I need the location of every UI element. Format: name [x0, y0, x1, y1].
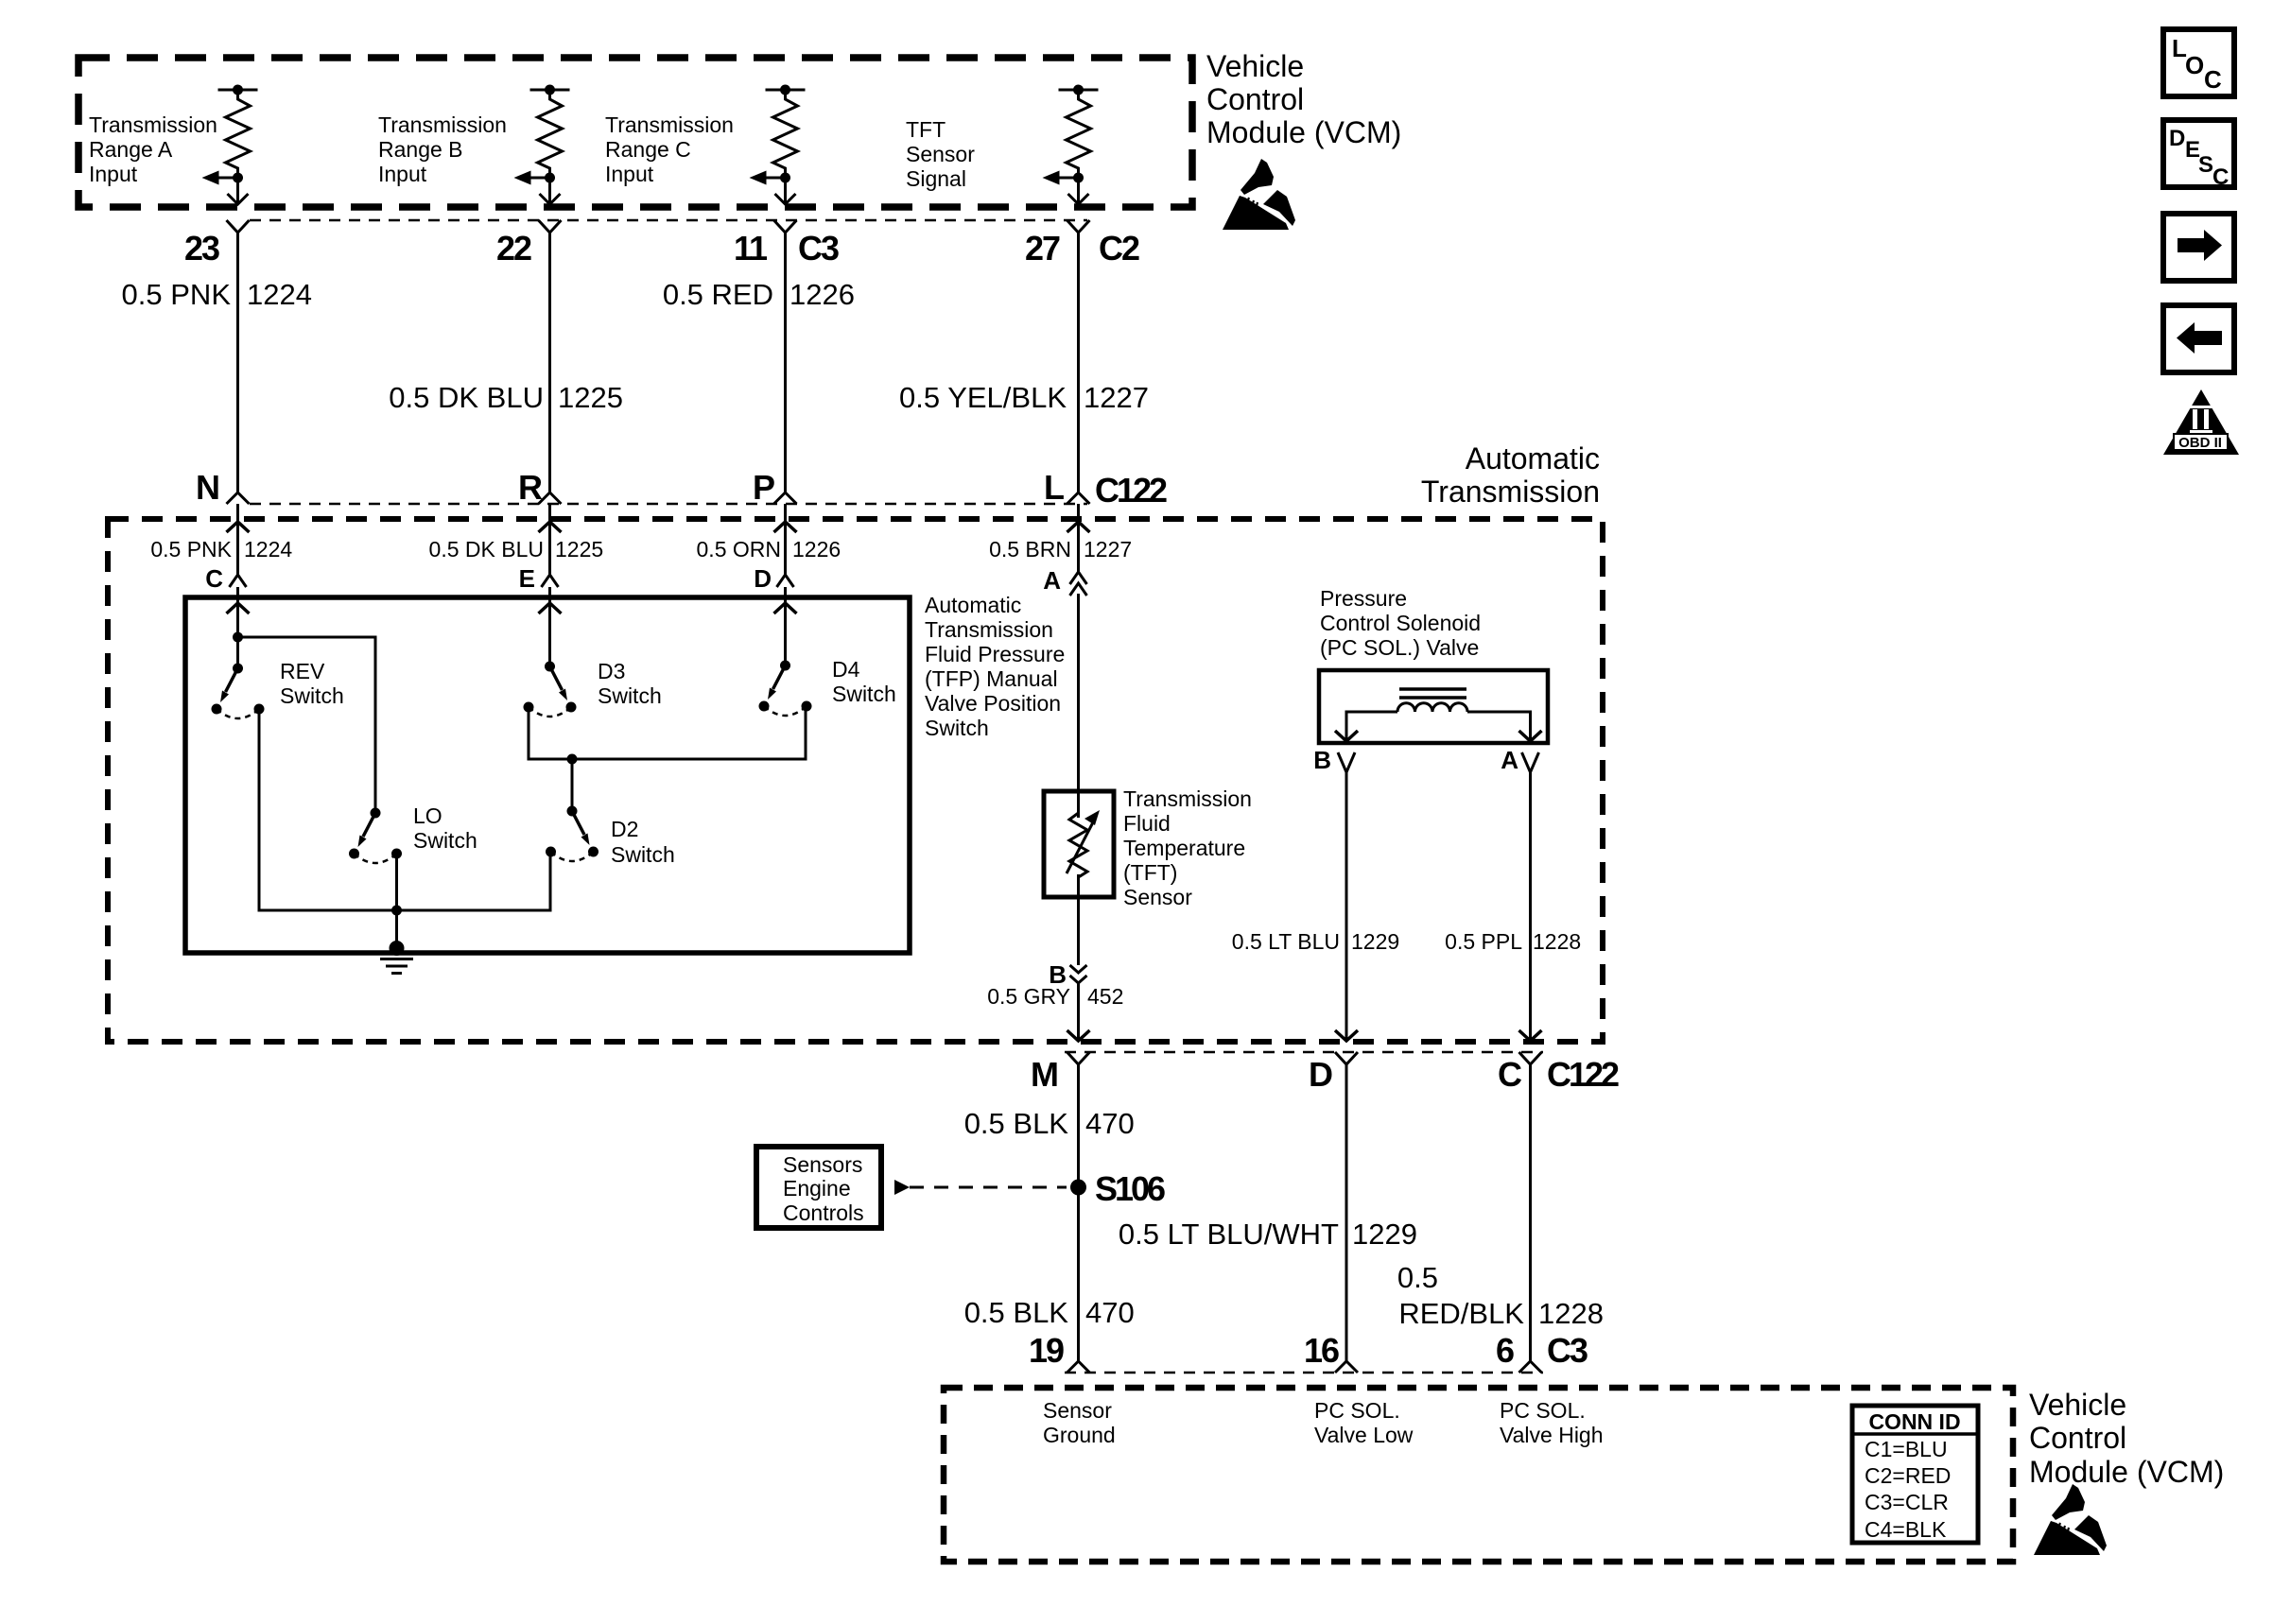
wire LO right contact to ground [395, 855, 398, 948]
svg-text:PC SOL.: PC SOL. [1314, 1398, 1400, 1423]
wire C inside TFP box [236, 587, 239, 668]
svg-text:C122: C122 [1547, 1055, 1619, 1094]
svg-text:Controls: Controls [783, 1201, 864, 1225]
svg-text:0.5 PPL: 0.5 PPL [1445, 929, 1522, 954]
svg-text:Range C: Range C [605, 137, 691, 162]
svg-text:Range A: Range A [89, 137, 173, 162]
ESD symbol bottom [2034, 1484, 2107, 1555]
wire 1228 ppl (solenoid A to C122) [1529, 772, 1532, 1039]
svg-text:B: B [1313, 746, 1331, 774]
svg-text:D4: D4 [832, 657, 860, 682]
svg-text:Switch: Switch [832, 682, 896, 706]
wire 470 blk upper [1077, 1064, 1080, 1362]
svg-text:Transmission: Transmission [378, 112, 507, 137]
svg-text:D: D [1309, 1055, 1332, 1094]
pin 27 chevron [1067, 220, 1090, 233]
svg-text:C3: C3 [1547, 1331, 1588, 1370]
svg-text:D: D [754, 564, 772, 593]
REV switch [212, 664, 265, 719]
svg-text:C3=CLR: C3=CLR [1865, 1490, 1949, 1514]
svg-text:6: 6 [1496, 1331, 1514, 1370]
svg-text:Input: Input [605, 162, 654, 186]
svg-text:1229: 1229 [1352, 1218, 1417, 1251]
svg-text:Control Solenoid: Control Solenoid [1320, 611, 1481, 635]
pin B double chevron (TFT) [1070, 965, 1087, 973]
svg-text:(PC SOL.) Valve: (PC SOL.) Valve [1320, 635, 1479, 660]
svg-text:C4=BLK: C4=BLK [1865, 1517, 1947, 1542]
svg-text:Control: Control [1206, 82, 1304, 116]
svg-text:O: O [2185, 51, 2204, 79]
svg-text:470: 470 [1085, 1107, 1135, 1140]
wire A entry arrow + wire [1077, 504, 1080, 572]
ground [380, 941, 413, 974]
svg-text:1224: 1224 [247, 278, 312, 311]
svg-text:Sensor: Sensor [1043, 1398, 1112, 1423]
wire 1227 yel/blk (VCM to C122) [1077, 233, 1080, 492]
svg-text:PC SOL.: PC SOL. [1500, 1398, 1586, 1423]
svg-text:Sensors: Sensors [783, 1152, 862, 1177]
TFT sensor thermistor zigzag [1069, 813, 1087, 877]
svg-text:Transmission: Transmission [605, 112, 734, 137]
svg-text:Vehicle: Vehicle [2029, 1388, 2126, 1422]
wire E inside TFP box [548, 587, 551, 666]
svg-text:Input: Input [89, 162, 138, 186]
D4 switch [759, 661, 812, 717]
ESD symbol top [1223, 159, 1295, 230]
svg-text:1224: 1224 [244, 537, 292, 561]
pin B chevron (solenoid) [1338, 752, 1355, 772]
svg-text:0.5 GRY: 0.5 GRY [987, 984, 1070, 1009]
LO switch [349, 808, 402, 864]
icon DESC box [2163, 120, 2234, 187]
svg-text:C2: C2 [1099, 229, 1139, 268]
icon forward arrow box [2163, 214, 2234, 281]
wire 1229 lt blu (solenoid B to C122) [1345, 772, 1348, 1039]
wire D entry arrow + wire [784, 504, 787, 575]
pin 22 chevron [539, 220, 562, 233]
svg-text:Switch: Switch [598, 683, 662, 708]
svg-text:0.5 ORN: 0.5 ORN [697, 537, 781, 561]
svg-text:D3: D3 [598, 659, 625, 683]
svg-text:C1=BLU: C1=BLU [1865, 1437, 1948, 1461]
svg-text:Pressure: Pressure [1320, 586, 1407, 611]
svg-text:1229: 1229 [1351, 929, 1399, 954]
svg-text:23: 23 [184, 229, 219, 268]
pin 6 chevron [1519, 1361, 1542, 1373]
svg-text:Switch: Switch [413, 828, 477, 853]
svg-text:S106: S106 [1095, 1169, 1165, 1208]
pin 16 chevron [1335, 1361, 1358, 1373]
svg-text:N: N [196, 468, 218, 507]
svg-text:Range B: Range B [378, 137, 463, 162]
pin R chevron [539, 492, 562, 504]
svg-text:Transmission: Transmission [1421, 475, 1600, 509]
svg-text:D2: D2 [611, 817, 638, 841]
svg-text:OBD II: OBD II [2178, 435, 2222, 451]
icon OBD II triangle [2163, 389, 2239, 455]
pin P chevron [774, 492, 797, 504]
svg-text:0.5 PNK: 0.5 PNK [122, 278, 232, 311]
svg-text:L: L [1044, 468, 1064, 507]
icon LOC box [2163, 29, 2234, 96]
wire D3 left contact down and bus to D4 [529, 706, 806, 759]
svg-text:1225: 1225 [555, 537, 603, 561]
wire 1225 dk blu (VCM to C122) [548, 233, 551, 492]
svg-text:1227: 1227 [1084, 381, 1149, 414]
svg-text:Automatic: Automatic [925, 593, 1021, 617]
Vehicle Control Module (VCM) top dashed box [78, 58, 1192, 207]
pin N chevron [227, 492, 250, 504]
resistor Transmission Range C Input [750, 85, 806, 205]
TFT sensor box [1044, 791, 1114, 897]
wire E entry arrow + wire [548, 504, 551, 575]
svg-text:0.5 PNK: 0.5 PNK [150, 537, 232, 561]
svg-text:1226: 1226 [792, 537, 841, 561]
Pressure Control Solenoid (PC SOL.) Valve box [1319, 670, 1548, 743]
Automatic Transmission dashed box [108, 519, 1603, 1042]
icon back arrow box [2163, 305, 2234, 372]
svg-text:Input: Input [378, 162, 427, 186]
svg-text:(TFT): (TFT) [1123, 860, 1177, 885]
svg-text:0.5 BRN: 0.5 BRN [989, 537, 1071, 561]
wire branch C to LO switch [238, 637, 376, 813]
wire D inside TFP box [784, 587, 787, 665]
svg-text:1227: 1227 [1084, 537, 1132, 561]
svg-text:Engine: Engine [783, 1176, 851, 1201]
wire 1224 pnk (VCM to C122) [236, 233, 239, 492]
solenoid coil [1397, 703, 1467, 712]
svg-text:C: C [1498, 1055, 1522, 1094]
wire TFT sensor to pin B [1077, 874, 1080, 965]
svg-text:Fluid Pressure: Fluid Pressure [925, 642, 1065, 666]
svg-text:REV: REV [280, 659, 325, 683]
svg-text:Fluid: Fluid [1123, 811, 1171, 836]
connector C122 line (top) [250, 503, 1087, 506]
pin A double chevron (TFP) [1070, 572, 1087, 584]
node: junction dot LO/REV [391, 906, 402, 916]
svg-text:C2=RED: C2=RED [1865, 1463, 1951, 1488]
wire 1229 lt blu/wht (C122 to VCM) [1345, 1064, 1348, 1362]
connector C3/C2 line (top VCM) [250, 219, 1087, 222]
wire C entry arrow + wire (C122 to TFP pin C) [236, 504, 239, 575]
pin D chevron [1335, 1052, 1358, 1064]
wire 1226 red (VCM to C122) [784, 233, 787, 492]
svg-text:1228: 1228 [1533, 929, 1581, 954]
svg-text:RED/BLK: RED/BLK [1398, 1297, 1524, 1330]
TFT sensor arrow [1067, 821, 1094, 873]
pin M chevron [1067, 1052, 1090, 1064]
svg-text:Valve High: Valve High [1500, 1423, 1604, 1447]
svg-text:TFT: TFT [906, 117, 946, 142]
svg-text:Valve Low: Valve Low [1314, 1423, 1414, 1447]
svg-text:22: 22 [496, 229, 531, 268]
arrow to S106 [894, 1180, 910, 1195]
TFP Manual Valve Position Switch box [185, 597, 910, 953]
svg-text:Sensor: Sensor [906, 142, 975, 166]
svg-text:0.5 YEL/BLK: 0.5 YEL/BLK [899, 381, 1067, 414]
node S106 splice [1070, 1180, 1086, 1196]
pin 23 chevron [227, 220, 250, 233]
pin C chevron [1519, 1052, 1542, 1064]
svg-text:Automatic: Automatic [1466, 441, 1600, 475]
pin 11 chevron [774, 220, 797, 233]
svg-text:0.5 DK BLU: 0.5 DK BLU [389, 381, 544, 414]
pin D chevron (TFP) [777, 575, 794, 587]
Sensors Engine Controls box [756, 1147, 881, 1228]
pin 19 chevron [1067, 1361, 1090, 1373]
CONN ID table [1852, 1406, 1978, 1543]
svg-text:Module (VCM): Module (VCM) [1206, 115, 1401, 149]
wire 1228 red/blk (C122 to VCM) [1529, 1064, 1532, 1362]
svg-text:S: S [2198, 152, 2213, 178]
svg-text:0.5 BLK: 0.5 BLK [964, 1107, 1069, 1140]
svg-text:0.5 BLK: 0.5 BLK [964, 1296, 1069, 1329]
svg-text:(TFP) Manual: (TFP) Manual [925, 666, 1058, 691]
svg-text:R: R [518, 468, 543, 507]
wire bus to D2 switch [571, 759, 574, 811]
solenoid internal wiring [1346, 712, 1397, 740]
dashed link to S106 [910, 1186, 1067, 1189]
connector C122 line (bottom) [1065, 1051, 1543, 1054]
svg-text:Vehicle: Vehicle [1206, 49, 1304, 83]
svg-text:CONN ID: CONN ID [1868, 1409, 1960, 1434]
svg-text:Module (VCM): Module (VCM) [2029, 1455, 2224, 1489]
svg-text:0.5 RED: 0.5 RED [663, 278, 773, 311]
svg-text:1226: 1226 [789, 278, 855, 311]
svg-text:C122: C122 [1095, 471, 1167, 510]
svg-text:Ground: Ground [1043, 1423, 1116, 1447]
svg-text:0.5 LT BLU/WHT: 0.5 LT BLU/WHT [1119, 1218, 1339, 1251]
svg-text:D: D [2169, 126, 2185, 151]
svg-text:Signal: Signal [906, 166, 966, 191]
svg-text:M: M [1031, 1055, 1057, 1094]
wire A (C122 to TFT sensor) [1077, 594, 1080, 818]
svg-text:Transmission: Transmission [1123, 786, 1252, 811]
svg-text:0.5 DK BLU: 0.5 DK BLU [429, 537, 544, 561]
D2 switch [546, 806, 599, 862]
connector C3 line (bottom) [1065, 1372, 1543, 1374]
resistor Transmission Range A Input [202, 85, 258, 205]
svg-text:11: 11 [734, 229, 768, 268]
svg-text:0.5 LT BLU: 0.5 LT BLU [1232, 929, 1340, 954]
pin E chevron (TFP) [542, 575, 559, 587]
svg-text:1225: 1225 [558, 381, 623, 414]
node: junction dot D3/D4 bus [567, 754, 578, 765]
node: junction dot C branch [233, 632, 243, 643]
pin A chevron (solenoid) [1522, 752, 1539, 772]
resistor Transmission Range B Input [514, 85, 570, 205]
svg-text:Valve Position: Valve Position [925, 691, 1061, 716]
wire REV right contact down [259, 709, 550, 910]
svg-text:0.5: 0.5 [1397, 1261, 1438, 1294]
svg-text:Sensor: Sensor [1123, 885, 1192, 909]
svg-text:Switch: Switch [611, 842, 675, 867]
svg-text:Transmission: Transmission [89, 112, 217, 137]
resistor TFT Sensor Signal [1043, 85, 1099, 205]
svg-text:Temperature: Temperature [1123, 836, 1245, 860]
svg-text:P: P [753, 468, 774, 507]
svg-text:1228: 1228 [1538, 1297, 1604, 1330]
pin L chevron [1067, 492, 1090, 504]
solenoid core lines [1399, 687, 1466, 691]
svg-text:C: C [2204, 65, 2222, 94]
svg-text:Switch: Switch [925, 716, 989, 740]
svg-text:27: 27 [1025, 229, 1060, 268]
svg-text:19: 19 [1029, 1331, 1064, 1370]
svg-text:Switch: Switch [280, 683, 344, 708]
svg-text:E: E [519, 564, 535, 593]
D3 switch [524, 662, 577, 717]
svg-text:Control: Control [2029, 1421, 2126, 1455]
svg-text:452: 452 [1087, 984, 1123, 1009]
Vehicle Control Module (VCM) bottom dashed box [944, 1388, 2013, 1562]
svg-text:A: A [1501, 746, 1518, 774]
svg-text:A: A [1043, 566, 1061, 595]
svg-text:Transmission: Transmission [925, 617, 1053, 642]
pin C chevron (TFP) [230, 575, 247, 587]
svg-text:C3: C3 [798, 229, 839, 268]
svg-text:LO: LO [413, 803, 442, 828]
svg-text:C: C [2212, 164, 2229, 190]
wire 452 gry [1077, 983, 1080, 1039]
svg-text:C: C [205, 564, 223, 593]
svg-text:470: 470 [1085, 1296, 1135, 1329]
svg-text:16: 16 [1304, 1331, 1339, 1370]
